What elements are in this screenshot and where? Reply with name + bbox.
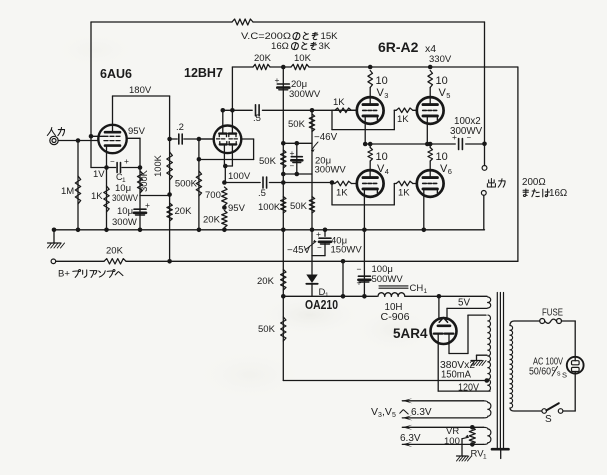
svg-text:100: 100 <box>444 436 460 447</box>
svg-text:20K: 20K <box>203 215 221 226</box>
svg-text:100K: 100K <box>258 202 281 213</box>
svg-text:6.3V: 6.3V <box>411 407 432 418</box>
svg-text:150mA: 150mA <box>441 370 471 381</box>
svg-text:V: V <box>439 87 447 99</box>
svg-text:16Ω: 16Ω <box>271 41 289 52</box>
svg-text:6.3V: 6.3V <box>400 433 421 444</box>
svg-text:x4: x4 <box>425 43 436 55</box>
svg-text:300WV: 300WV <box>289 89 321 100</box>
svg-text:16Ω: 16Ω <box>549 188 567 199</box>
svg-text:S: S <box>562 371 567 380</box>
svg-text:3: 3 <box>384 91 388 100</box>
svg-text:+: + <box>316 229 321 239</box>
svg-text:500WV: 500WV <box>372 274 404 285</box>
svg-text:1K: 1K <box>336 188 348 199</box>
svg-text:−45V: −45V <box>287 245 311 256</box>
svg-text:50K: 50K <box>290 201 308 212</box>
svg-text:700: 700 <box>205 190 221 201</box>
svg-text:1K: 1K <box>333 97 345 108</box>
svg-text:−: − <box>290 162 295 171</box>
svg-text:−: − <box>357 264 362 274</box>
svg-text:20K: 20K <box>257 276 275 287</box>
svg-text:4: 4 <box>385 167 389 176</box>
svg-text:20K: 20K <box>106 246 124 257</box>
svg-text:+: + <box>124 156 129 166</box>
svg-text:10: 10 <box>376 151 388 163</box>
svg-text:1: 1 <box>483 454 487 461</box>
svg-text:OA210: OA210 <box>305 298 338 312</box>
svg-text:+: + <box>290 148 295 158</box>
svg-text:6R-A2: 6R-A2 <box>378 39 419 55</box>
svg-text:6: 6 <box>448 167 452 176</box>
svg-text:5V: 5V <box>458 298 470 309</box>
svg-text:1: 1 <box>424 288 428 295</box>
svg-text:12BH7: 12BH7 <box>184 66 223 80</box>
svg-text:300K: 300K <box>139 169 149 192</box>
svg-text:1K: 1K <box>398 188 410 199</box>
svg-text:5: 5 <box>392 412 396 419</box>
svg-text:330V: 330V <box>429 54 452 65</box>
svg-text:S: S <box>545 414 552 425</box>
svg-text:5AR4: 5AR4 <box>393 326 428 341</box>
svg-text:50K: 50K <box>288 119 306 130</box>
svg-text:180V: 180V <box>129 85 152 96</box>
svg-text:.5: .5 <box>253 113 261 124</box>
svg-text:120V: 120V <box>458 383 479 394</box>
svg-text:+: + <box>145 200 150 210</box>
svg-text:FUSE: FUSE <box>542 308 563 319</box>
svg-text:10: 10 <box>436 151 448 163</box>
svg-text:.2: .2 <box>176 122 184 133</box>
svg-text:20K: 20K <box>254 53 272 64</box>
svg-text:50/60: 50/60 <box>529 367 551 378</box>
svg-text:95V: 95V <box>228 203 246 214</box>
svg-text:CH: CH <box>410 283 424 294</box>
svg-text:300WV: 300WV <box>315 165 347 176</box>
svg-text:300W: 300W <box>112 217 137 228</box>
svg-text:100V: 100V <box>228 171 251 182</box>
svg-text:10: 10 <box>376 75 388 87</box>
svg-text:50K: 50K <box>259 156 277 167</box>
svg-text:V: V <box>440 163 448 175</box>
svg-text:20K: 20K <box>175 206 193 217</box>
svg-text:200Ω: 200Ω <box>522 177 546 188</box>
svg-text:1M: 1M <box>61 186 74 197</box>
svg-text:50K: 50K <box>258 324 276 335</box>
svg-text:1K: 1K <box>91 191 103 202</box>
svg-text:150WV: 150WV <box>331 245 363 256</box>
svg-text:10μ: 10μ <box>117 206 133 217</box>
svg-text:6AU6: 6AU6 <box>100 67 132 81</box>
svg-text:1K: 1K <box>397 114 409 125</box>
svg-text:95V: 95V <box>128 126 146 137</box>
svg-text:100K: 100K <box>153 154 163 177</box>
svg-text:−: − <box>110 157 115 166</box>
svg-text:1V: 1V <box>93 169 105 180</box>
svg-text:500K: 500K <box>175 179 198 190</box>
svg-text:10K: 10K <box>294 53 312 64</box>
svg-text:300WV: 300WV <box>450 126 483 137</box>
svg-text:.5: .5 <box>258 188 266 199</box>
svg-text:−: − <box>317 243 322 252</box>
svg-text:+: + <box>275 75 280 85</box>
svg-text:,V: ,V <box>382 406 392 418</box>
svg-text:5: 5 <box>446 91 450 100</box>
svg-text:+: + <box>357 278 362 288</box>
svg-text:V: V <box>377 163 385 175</box>
svg-text:V: V <box>371 406 378 418</box>
svg-text:−46V: −46V <box>314 132 338 143</box>
svg-text:C-906: C-906 <box>381 312 411 323</box>
svg-text:10: 10 <box>436 75 448 87</box>
svg-text:300WV: 300WV <box>112 193 139 204</box>
svg-text:s: s <box>557 371 561 378</box>
svg-text:c: c <box>552 366 556 373</box>
svg-text:3K: 3K <box>319 41 331 52</box>
svg-text:V: V <box>377 87 385 99</box>
svg-text:B+: B+ <box>58 269 70 280</box>
